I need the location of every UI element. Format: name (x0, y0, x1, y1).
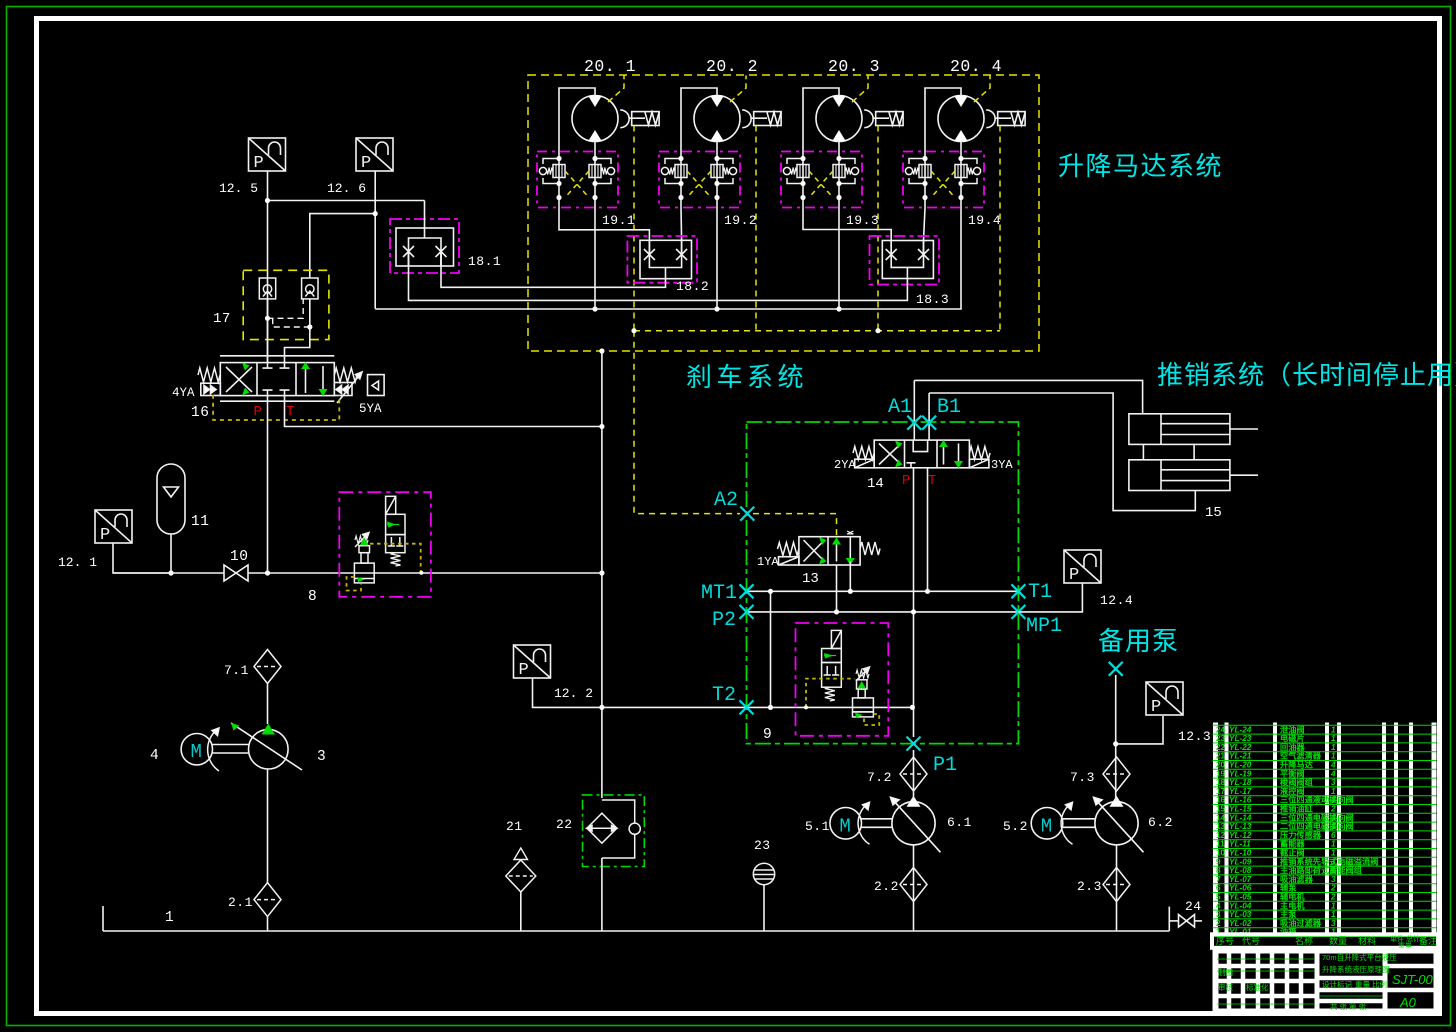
svg-text:制图: 制图 (1218, 967, 1233, 977)
svg-text:M: M (1041, 815, 1052, 837)
brake cylinder of motor 20.3 (864, 110, 903, 128)
junction dot backup line (1113, 741, 1118, 746)
pressure gauge 12.5 (249, 138, 286, 173)
svg-text:12.4: 12.4 (1100, 593, 1133, 608)
relief/check cartridge right in block 19.2 (711, 159, 737, 184)
svg-text:1: 1 (1331, 901, 1336, 910)
wire: A1 to cylinder 15 upper (914, 380, 1142, 413)
svg-text:YL-06: YL-06 (1229, 884, 1252, 893)
svg-text:YL-18: YL-18 (1229, 778, 1252, 787)
svg-text:6.2: 6.2 (1148, 815, 1173, 830)
svg-text:备用泵: 备用泵 (1098, 626, 1179, 656)
hydraulic enclosure box: lifting motor system (yellow dashed) (528, 75, 1039, 351)
wire: junction 12.5 to 18.1 input (268, 200, 425, 202)
svg-text:12. 1: 12. 1 (58, 555, 97, 570)
junction dots on pilot manifold (631, 328, 880, 333)
wire: gauge 12.6 down (374, 171, 376, 309)
main line through block 19.3 left (802, 152, 804, 208)
svg-text:YL-17: YL-17 (1229, 787, 1252, 796)
svg-text:14: 14 (867, 476, 884, 492)
solenoid 1YA valve 13 (778, 543, 799, 566)
svg-text:12.3: 12.3 (1178, 729, 1211, 744)
pressure gauge 12.4 (1064, 550, 1101, 585)
svg-text:3: 3 (1331, 778, 1336, 787)
wire: gauge 12.2 to tank return junction (533, 678, 602, 707)
tank line 1 (103, 906, 1169, 931)
svg-text:主油路卸荷式蓄能阀组: 主油路卸荷式蓄能阀组 (1280, 865, 1363, 875)
svg-text:YL-12: YL-12 (1229, 831, 1252, 840)
svg-text:1: 1 (1331, 822, 1336, 831)
svg-text:序号: 序号 (1216, 935, 1234, 946)
wire: accumulator main line y=573 (113, 572, 224, 574)
filter 2.2 (900, 868, 927, 902)
svg-text:7.1: 7.1 (224, 663, 249, 678)
wire: MT1 - T1 row (747, 590, 1019, 592)
svg-text:P1: P1 (933, 754, 957, 777)
wire: motor 20.2 bottom port down (716, 142, 718, 153)
svg-text:5: 5 (1216, 893, 1221, 902)
svg-text:1: 1 (1331, 849, 1336, 858)
wire: 18.1 input from brake supply (424, 201, 426, 239)
svg-text:YL-08: YL-08 (1229, 866, 1252, 875)
svg-text:4YA: 4YA (172, 386, 195, 400)
wire: motor 20.3 right port to brake-release bus (838, 208, 840, 309)
unloading valve block 8 (magenta dash-dot box) (339, 492, 431, 597)
relief/check cartridge left in block 19.4 (905, 159, 931, 184)
svg-text:1: 1 (1331, 840, 1336, 849)
junction dots block 17 (265, 316, 313, 330)
relief/check cartridge left in block 19.1 (539, 159, 565, 184)
wire: gauge 12.5 down to junction and to pilot-operated check 17 and valve 16 P-side (267, 171, 269, 363)
wire: pump 6.2 down to filter 2.3 and tank (1116, 845, 1118, 931)
svg-text:推销系统（长时间停止用）: 推销系统（长时间停止用） (1157, 360, 1456, 390)
junction dots on accumulator line (168, 570, 270, 575)
svg-text:YL-13: YL-13 (1229, 822, 1252, 831)
port marks A1 B1 (907, 416, 921, 430)
brake cylinder of motor 20.4 (986, 110, 1025, 128)
svg-text:三位四通液动换向阀: 三位四通液动换向阀 (1280, 795, 1354, 805)
svg-text:2: 2 (1330, 805, 1336, 814)
wire: T2 row (602, 706, 913, 708)
svg-text:16: 16 (191, 405, 209, 421)
valve 16 top rail (220, 355, 334, 357)
solenoid 4YA of valve 16 (198, 368, 220, 396)
svg-text:6: 6 (1331, 831, 1336, 840)
pilot valve inside block 9 (822, 630, 842, 701)
pilot line from brake of motor 20.1 (yellow dashed) (633, 126, 635, 331)
svg-text:单件 总计: 单件 总计 (1390, 934, 1420, 943)
svg-text:8: 8 (1216, 866, 1221, 875)
junction dots block 19.2 (678, 156, 719, 200)
filter 22 element (587, 813, 618, 843)
svg-text:YL-02: YL-02 (1229, 919, 1252, 928)
svg-text:YL-20: YL-20 (1229, 761, 1252, 770)
junction dots pusher system rows (768, 589, 930, 710)
pilot valve (2-pos) inside block 8 (386, 496, 405, 566)
electric motor 5.2 (1031, 808, 1063, 840)
wire: filter 2.1 to tank line (267, 917, 269, 931)
svg-text:M: M (839, 815, 850, 837)
svg-text:3YA: 3YA (991, 458, 1013, 472)
svg-text:压力传感器: 压力传感器 (1280, 830, 1322, 840)
svg-text:1: 1 (165, 910, 174, 926)
svg-text:22: 22 (556, 817, 573, 832)
svg-text:T: T (928, 474, 936, 489)
svg-text:YL-05: YL-05 (1229, 893, 1252, 902)
wire: motor 20.1 left port to shuttle 18.2 (559, 208, 649, 240)
pilot/spring + solenoid 5YA right side of valve 16 (334, 368, 384, 403)
wire: 18.1 right output to 18.2 output (net) (441, 252, 666, 288)
wire: valve 13 left port to P2 row (836, 565, 838, 612)
svg-text:14: 14 (1216, 813, 1226, 822)
pilot cross lines X in block 19.2 (yellow dashed) (687, 171, 711, 198)
wire: filter 22 to tank line (601, 858, 603, 931)
svg-text:3: 3 (317, 749, 326, 765)
svg-text:共 张 第 张: 共 张 第 张 (1330, 1001, 1367, 1011)
svg-text:主电机: 主电机 (1280, 900, 1305, 910)
svg-text:10: 10 (230, 549, 248, 565)
svg-text:梭阀阀组: 梭阀阀组 (1280, 777, 1314, 787)
port marks MT1 P2 T2 (740, 584, 754, 598)
rotation arc arrow pump 6.1 (858, 802, 869, 844)
title block content (1216, 950, 1437, 1012)
wire: motor 20.3 left port to shuttle 18.3 (803, 208, 891, 241)
wire: valve 14 T line down to MT1 row (927, 468, 929, 592)
svg-text:8: 8 (308, 589, 317, 605)
variable displacement pump 3 (231, 723, 302, 770)
svg-text:21: 21 (1216, 752, 1226, 761)
BOM header row (1212, 934, 1438, 950)
level gauge 23 (753, 863, 774, 884)
hydraulic motor 20.1 (572, 96, 618, 142)
hydraulic motor 20.4 (938, 96, 984, 142)
svg-text:刹车系统: 刹车系统 (686, 362, 808, 392)
svg-text:19.4: 19.4 (968, 213, 1001, 228)
hydraulic motor 20.3 (816, 96, 862, 142)
svg-text:9: 9 (763, 727, 772, 743)
main line through block 19.1 right (594, 152, 596, 208)
valve 14 green arrowheads (895, 440, 963, 468)
svg-text:7.3: 7.3 (1070, 770, 1095, 785)
svg-text:YL-19: YL-19 (1229, 769, 1252, 778)
svg-text:A2: A2 (714, 489, 738, 512)
shuttle valve block 18.2 (magenta box) (627, 236, 697, 283)
wire: gauge 12.3 to backup pump line (1116, 716, 1163, 744)
svg-text:7.2: 7.2 (867, 770, 892, 785)
svg-text:18: 18 (1216, 778, 1226, 787)
svg-text:名称: 名称 (1295, 935, 1313, 946)
svg-text:T: T (286, 404, 294, 420)
svg-text:P: P (100, 526, 110, 545)
pilot line from brake of motor 20.4 (yellow dashed) (999, 126, 1001, 331)
wire: MP1 row extension to gauge 12.4 (1018, 583, 1082, 612)
wire: motor 20.4 right port down and brake-release bus end (375, 208, 961, 309)
svg-text:19.1: 19.1 (602, 213, 635, 228)
svg-text:2.2: 2.2 (874, 879, 899, 894)
wire: MT1 row to T2 row link (770, 591, 772, 707)
svg-text:6.1: 6.1 (947, 815, 972, 830)
svg-text:1: 1 (1331, 734, 1336, 743)
svg-text:YL-14: YL-14 (1229, 813, 1252, 822)
svg-text:A1: A1 (888, 396, 912, 419)
case drain line of motor 20.2 (yellow dashed) (730, 76, 746, 103)
svg-text:2.3: 2.3 (1077, 879, 1102, 894)
wire: gauge 12.1 to main line (113, 543, 171, 573)
pressure gauge 12.6 (356, 138, 393, 173)
svg-text:YL-15: YL-15 (1229, 805, 1252, 814)
svg-text:1: 1 (1331, 725, 1336, 734)
svg-text:YL-21: YL-21 (1229, 752, 1252, 761)
filter 21 (506, 860, 536, 892)
svg-text:P: P (1069, 566, 1079, 585)
svg-text:数量: 数量 (1329, 935, 1347, 946)
svg-text:13: 13 (802, 571, 819, 587)
svg-text:P2: P2 (712, 609, 736, 632)
wire: breather 21 stem (520, 892, 522, 931)
wire: motor 20.1 right port to brake-release bus (594, 208, 596, 309)
wire: motor 20.2 left port over-the-top (681, 88, 717, 152)
svg-text:P: P (1151, 698, 1161, 717)
svg-text:23: 23 (754, 838, 771, 853)
filter 2.3 (1103, 868, 1130, 902)
svg-text:7: 7 (1216, 875, 1221, 884)
svg-text:辅电机: 辅电机 (1280, 892, 1305, 902)
relief/check cartridge right in block 19.4 (955, 159, 981, 184)
drain valve 24 (1169, 907, 1202, 931)
svg-text:1: 1 (1331, 743, 1336, 752)
relief/check cartridge right in block 19.1 (589, 159, 615, 184)
svg-text:YL-22: YL-22 (1229, 743, 1252, 752)
filter 7.2 (900, 757, 927, 791)
svg-text:升降马达: 升降马达 (1280, 760, 1314, 770)
wire: level gauge stem (763, 885, 765, 931)
svg-text:截止阀: 截止阀 (1280, 848, 1305, 858)
pilot dashes inside block 17 (268, 299, 310, 327)
svg-text:15: 15 (1216, 805, 1226, 814)
wire: motor 20.4 left port to shuttle 18.3 (924, 208, 926, 241)
svg-text:推销系统先导式电磁溢流阀: 推销系统先导式电磁溢流阀 (1280, 856, 1378, 866)
pilot line from brake of motor 20.2 (yellow dashed) (755, 126, 757, 331)
wire: valve16 P line through filter 7.1 to pump 3 (267, 684, 269, 725)
pilot line from brake of motor 20.3 (yellow dashed) (877, 126, 879, 331)
svg-text:2: 2 (1330, 893, 1336, 902)
counterbalance valve block 19.4 (magenta dashed) (903, 152, 984, 208)
svg-text:YL-23: YL-23 (1229, 734, 1252, 743)
svg-text:6: 6 (1216, 884, 1221, 893)
junction dot pilot block 9 (804, 705, 808, 709)
wire: motor 20.4 left port over-the-top (925, 88, 961, 152)
svg-text:泄油阀: 泄油阀 (1280, 724, 1305, 734)
svg-text:4: 4 (1330, 761, 1336, 770)
main line through block 19.3 right (838, 152, 840, 208)
junction dots block 19.1 (556, 156, 597, 200)
wire: 12.6 junction to check 17 right branch (310, 214, 375, 278)
directional valve 14 body (3-pos solenoid) (874, 440, 969, 468)
relief valve block 9 (magenta dash-dot box) (796, 623, 889, 736)
svg-text:三位四通电磁换向阀: 三位四通电磁换向阀 (1280, 812, 1354, 822)
svg-text:备注: 备注 (1419, 935, 1437, 946)
svg-text:主泵: 主泵 (1280, 909, 1297, 919)
wire: valve 16 T port to tank return line (285, 396, 602, 427)
svg-text:1: 1 (1331, 787, 1336, 796)
svg-text:辅泵: 辅泵 (1280, 883, 1297, 893)
brake pilot manifold line (yellow dashed) (634, 330, 1000, 332)
wire: valve 14 B1 riser (928, 393, 930, 440)
main line through block 19.4 left (924, 152, 926, 208)
svg-text:YL-16: YL-16 (1229, 796, 1252, 805)
wire: motor 20.2 right port to brake-release bus (716, 208, 718, 309)
svg-text:15: 15 (1205, 505, 1222, 521)
svg-text:液控阀: 液控阀 (1280, 786, 1305, 796)
svg-text:吸油过滤器: 吸油过滤器 (1280, 918, 1322, 928)
pilot line A2 to valve 13 (yellow dashed) (753, 514, 837, 537)
junction dot pilot to main line block 8 (419, 571, 423, 575)
shuttle valve 18.1 body (396, 228, 454, 266)
valve 16 bottom rail (220, 400, 334, 402)
svg-text:4: 4 (1330, 769, 1336, 778)
svg-text:2.1: 2.1 (228, 895, 253, 910)
valve 13 green arrowheads (819, 537, 855, 565)
case drain line of motor 20.1 (yellow dashed) (608, 76, 624, 103)
main line through block 19.2 right (716, 152, 718, 208)
svg-text:3: 3 (1216, 910, 1221, 919)
svg-text:18.3: 18.3 (916, 292, 949, 307)
svg-text:P: P (361, 154, 371, 173)
svg-text:MP1: MP1 (1026, 615, 1062, 638)
shaft 5.1-6.1 (862, 819, 893, 828)
filter 22 bypass check valve (602, 800, 640, 858)
svg-text:A0: A0 (1399, 995, 1417, 1010)
shut-off valve 10 (224, 565, 248, 581)
svg-text:审核: 审核 (1218, 982, 1234, 992)
telescopic cylinders 15 (1129, 414, 1258, 491)
svg-text:1YA: 1YA (757, 555, 779, 569)
svg-text:比例: 比例 (1372, 979, 1387, 989)
relief valve inside block 9 (853, 667, 874, 717)
shuttle valve 18.2 body (640, 240, 692, 278)
svg-text:YL-11: YL-11 (1229, 840, 1251, 849)
filter 2.1 (254, 883, 281, 917)
filter 7.1 (254, 650, 281, 684)
svg-text:推销油缸: 推销油缸 (1280, 804, 1314, 814)
svg-text:1: 1 (1331, 796, 1336, 805)
pilot cross lines X in block 19.1 (yellow dashed) (565, 171, 589, 198)
svg-text:代号: 代号 (1242, 936, 1260, 946)
pilot cross lines X in block 19.4 (yellow dashed) (931, 171, 955, 198)
svg-text:5.1: 5.1 (805, 819, 830, 834)
svg-text:2: 2 (1330, 884, 1336, 893)
junction dots on tank return line (599, 348, 604, 710)
shuttle valve 18.3 body (882, 241, 933, 279)
junction dots on brake-release bus (592, 306, 841, 311)
main line through block 19.2 left (680, 152, 682, 208)
wire: motor 20.3 bottom port down (838, 142, 840, 153)
junction dots block 19.3 (800, 156, 841, 200)
wire: accumulator down to main line (170, 534, 172, 573)
svg-text:3: 3 (1331, 919, 1336, 928)
counterbalance valve block 19.1 (magenta dashed) (537, 152, 618, 208)
svg-text:12. 2: 12. 2 (554, 686, 593, 701)
check valve right in block 17 (302, 278, 318, 299)
wire: 18.1 left output to 18.3 output (net) (409, 252, 908, 301)
svg-text:SJT-00: SJT-00 (1392, 972, 1433, 987)
counterbalance valve block 19.3 (magenta dashed) (781, 152, 862, 208)
shaft between motor 4 and pump 3 (213, 745, 250, 754)
wire: valve 14 A1 riser (913, 380, 915, 440)
svg-text:M: M (191, 741, 202, 763)
block 9 pilot lines (yellow dotted) (806, 679, 879, 725)
wire: motor 20.4 bottom port down (960, 142, 962, 153)
svg-text:1: 1 (1331, 752, 1336, 761)
svg-text:电磁片: 电磁片 (1280, 733, 1305, 743)
hydraulic motor 20.2 (694, 96, 740, 142)
svg-text:19: 19 (1216, 769, 1226, 778)
svg-text:YL-24: YL-24 (1229, 725, 1252, 734)
svg-text:13: 13 (1216, 822, 1226, 831)
svg-text:材料: 材料 (1358, 935, 1376, 946)
svg-text:11: 11 (191, 514, 209, 530)
variable displacement pump 6.1 (891, 796, 941, 853)
wire: tank return line from motor enclosure down to filter 22 (601, 351, 603, 798)
svg-text:18.2: 18.2 (676, 279, 709, 294)
svg-text:19.2: 19.2 (724, 213, 757, 228)
svg-text:P: P (254, 404, 262, 420)
svg-text:B1: B1 (937, 396, 961, 419)
parts list (BOM) table (1213, 723, 1437, 937)
solenoid 3YA valve 14 (969, 447, 990, 468)
svg-text:2YA: 2YA (834, 458, 856, 472)
accumulator 11 (157, 464, 185, 534)
relief/check cartridge left in block 19.2 (661, 159, 687, 184)
svg-text:12. 5: 12. 5 (219, 181, 258, 196)
wire: P2 - MP1 row (747, 611, 1019, 613)
case drain line of motor 20.4 (yellow dashed) (974, 76, 990, 103)
main line through block 19.4 right (960, 152, 962, 208)
svg-text:24: 24 (1216, 725, 1226, 734)
backup pump connection mark (1109, 662, 1123, 676)
svg-text:17: 17 (1216, 787, 1226, 796)
svg-text:4: 4 (150, 748, 159, 764)
check valve left in block 17 (259, 278, 275, 299)
svg-text:20. 3: 20. 3 (828, 57, 880, 76)
shaft 5.2-6.2 (1063, 819, 1096, 828)
svg-text:16: 16 (1216, 796, 1226, 805)
block 8 relief green arrow (360, 538, 369, 546)
electric motor 4 (181, 734, 212, 765)
svg-text:9: 9 (1216, 857, 1221, 866)
svg-text:YL-03: YL-03 (1229, 910, 1252, 919)
svg-text:12: 12 (1216, 831, 1226, 840)
svg-text:10: 10 (1216, 849, 1226, 858)
svg-text:1: 1 (1331, 813, 1336, 822)
svg-text:P: P (254, 154, 264, 173)
port mark A2 (740, 507, 754, 521)
pressure gauge 12.2 (514, 645, 551, 680)
rotation arc arrow at pump 3 (208, 728, 219, 771)
svg-text:11: 11 (1216, 840, 1225, 849)
svg-text:YL-10: YL-10 (1229, 849, 1252, 858)
port marks T1 MP1 (1011, 584, 1025, 598)
wire: B1 to cylinder 15 lower (929, 393, 1195, 511)
svg-text:YL-09: YL-09 (1229, 857, 1252, 866)
pilot operated check valve block 17 (yellow dashed box) (243, 270, 329, 339)
relief valve inside block 8 (354, 533, 374, 583)
rotation arc arrow pump 6.2 (1061, 802, 1072, 844)
svg-text:YL-04: YL-04 (1229, 901, 1252, 910)
svg-text:升降系统液压原理图: 升降系统液压原理图 (1322, 964, 1390, 974)
svg-text:20. 2: 20. 2 (706, 57, 758, 76)
solenoid 2YA valve 14 (853, 447, 874, 468)
